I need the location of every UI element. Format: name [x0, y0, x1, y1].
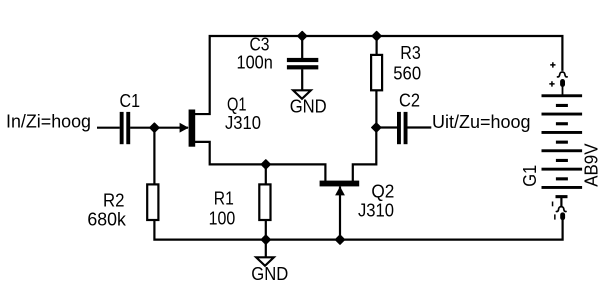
svg-text:C2: C2 [399, 91, 420, 111]
svg-text:J310: J310 [225, 113, 261, 133]
svg-text:AB9V: AB9V [582, 144, 602, 187]
svg-text:560: 560 [393, 64, 421, 84]
svg-text:R3: R3 [400, 43, 421, 63]
svg-text:100: 100 [209, 209, 236, 229]
svg-text:R1: R1 [214, 189, 234, 209]
svg-text:R2: R2 [103, 191, 125, 211]
svg-text:Q1: Q1 [227, 95, 247, 115]
svg-text:C1: C1 [120, 91, 141, 111]
svg-text:680k: 680k [87, 209, 126, 229]
svg-text:100n: 100n [237, 53, 273, 73]
svg-text:In/Zi=hoog: In/Zi=hoog [6, 112, 91, 132]
svg-text:GND: GND [251, 264, 288, 284]
svg-text:J310: J310 [358, 201, 394, 221]
svg-text:G1: G1 [520, 165, 540, 187]
svg-text:Q2: Q2 [371, 181, 394, 201]
svg-text:GND: GND [290, 97, 327, 117]
svg-text:Uit/Zu=hoog: Uit/Zu=hoog [432, 112, 531, 132]
